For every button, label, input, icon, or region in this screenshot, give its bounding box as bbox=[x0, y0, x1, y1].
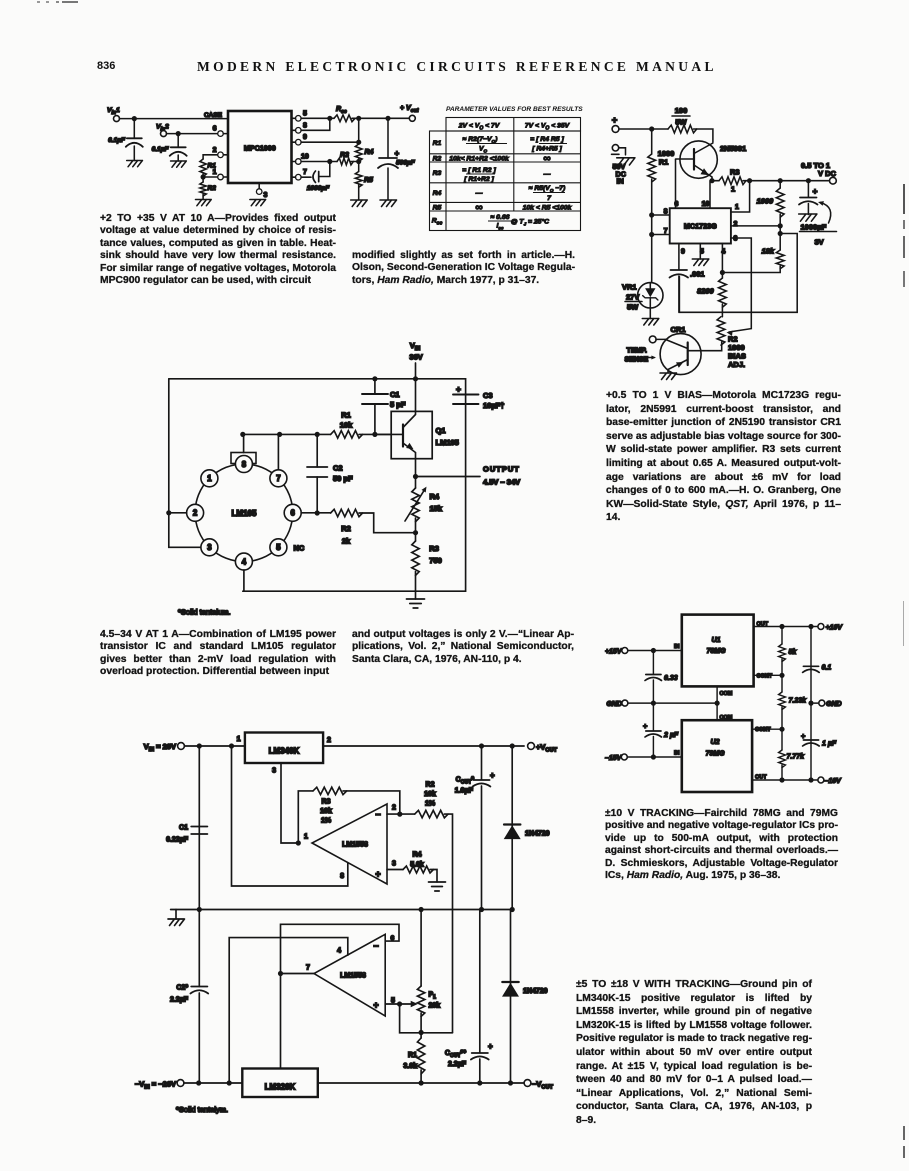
svg-text:R4: R4 bbox=[413, 852, 422, 859]
svg-text:2: 2 bbox=[213, 147, 217, 154]
svg-text:VR1: VR1 bbox=[622, 283, 637, 292]
svg-text:7.23k: 7.23k bbox=[789, 698, 808, 705]
svg-text:VIN = 20V: VIN = 20V bbox=[144, 742, 176, 753]
svg-text:0.1μF: 0.1μF bbox=[108, 137, 126, 144]
svg-text:2: 2 bbox=[734, 221, 738, 228]
svg-text:U2: U2 bbox=[711, 739, 720, 746]
svg-text:1.0μF: 1.0μF bbox=[455, 788, 474, 795]
svg-text:COM: COM bbox=[720, 715, 733, 721]
svg-text:CR1: CR1 bbox=[670, 325, 685, 334]
svg-text:+: + bbox=[490, 771, 495, 780]
svg-text:+15V: +15V bbox=[605, 649, 623, 656]
svg-text:TEMP.: TEMP. bbox=[627, 348, 648, 355]
svg-text:R1: R1 bbox=[408, 1052, 417, 1059]
svg-text:CASE: CASE bbox=[204, 112, 223, 119]
svg-text:0.1μF: 0.1μF bbox=[152, 146, 170, 153]
svg-text:1: 1 bbox=[731, 185, 735, 194]
svg-text:20k: 20k bbox=[429, 1003, 441, 1010]
svg-text:R2: R2 bbox=[433, 156, 442, 163]
svg-text:C2: C2 bbox=[333, 464, 343, 473]
svg-text:8: 8 bbox=[242, 460, 247, 469]
svg-text:50 pF: 50 pF bbox=[333, 474, 353, 483]
svg-text:−: − bbox=[375, 810, 380, 820]
svg-text:R3: R3 bbox=[433, 170, 442, 177]
svg-text:5: 5 bbox=[303, 110, 307, 117]
svg-text:LM1558: LM1558 bbox=[342, 842, 368, 849]
svg-text:1%: 1% bbox=[425, 801, 436, 808]
svg-text:27V: 27V bbox=[626, 293, 639, 302]
svg-text:5 pF: 5 pF bbox=[390, 400, 406, 409]
svg-text:VO: VO bbox=[479, 146, 488, 154]
svg-text:LM105: LM105 bbox=[232, 509, 257, 518]
svg-text:+: + bbox=[395, 149, 400, 158]
svg-text:IN: IN bbox=[617, 177, 624, 186]
svg-text:NC: NC bbox=[294, 544, 305, 553]
svg-text:R3: R3 bbox=[730, 168, 740, 177]
svg-text:0.22µF: 0.22µF bbox=[166, 837, 189, 844]
svg-text:3: 3 bbox=[392, 861, 396, 868]
svg-text:5W: 5W bbox=[675, 118, 687, 127]
svg-text:≈ R5(VO −7): ≈ R5(VO −7) bbox=[529, 185, 566, 193]
svg-text:10: 10 bbox=[301, 154, 309, 161]
svg-text:Rsc: Rsc bbox=[432, 218, 443, 227]
svg-text:—: — bbox=[543, 171, 551, 178]
svg-text:+: + bbox=[813, 186, 818, 196]
svg-text:6: 6 bbox=[291, 509, 296, 518]
svg-text:36V: 36V bbox=[409, 353, 422, 362]
svg-text:R1: R1 bbox=[433, 140, 442, 147]
svg-text:8: 8 bbox=[340, 873, 344, 880]
svg-text:7: 7 bbox=[303, 169, 307, 176]
svg-text:≈ R2(7−VO): ≈ R2(7−VO) bbox=[463, 136, 498, 144]
svg-text:8200: 8200 bbox=[697, 287, 715, 296]
svg-text:Isc: Isc bbox=[496, 223, 503, 231]
svg-text:Rsc: Rsc bbox=[336, 106, 347, 115]
svg-text:−: − bbox=[373, 941, 378, 951]
svg-text:9: 9 bbox=[681, 249, 685, 256]
svg-text:1: 1 bbox=[735, 204, 739, 211]
svg-text:2k: 2k bbox=[342, 537, 351, 546]
svg-text:MC1723G: MC1723G bbox=[684, 222, 717, 231]
svg-text:+: + bbox=[612, 115, 618, 126]
svg-text:6: 6 bbox=[391, 935, 395, 942]
svg-text:R4: R4 bbox=[365, 149, 374, 156]
svg-text:4: 4 bbox=[337, 948, 341, 955]
svg-text:R2: R2 bbox=[426, 782, 435, 789]
svg-text:2.2µF: 2.2µF bbox=[448, 1061, 467, 1068]
svg-text:+: + bbox=[375, 869, 380, 879]
svg-text:1000μF: 1000μF bbox=[801, 223, 827, 232]
svg-text:∞: ∞ bbox=[475, 202, 483, 214]
svg-text:= [ R4 R5 ]: = [ R4 R5 ] bbox=[530, 136, 564, 143]
svg-text:7V < VO < 35V: 7V < VO < 35V bbox=[525, 123, 571, 132]
svg-text:2: 2 bbox=[327, 737, 331, 744]
svg-text:2V < VO < 7V: 2V < VO < 7V bbox=[458, 123, 501, 132]
svg-text:COM: COM bbox=[720, 691, 733, 697]
svg-text:10k< R1+R2 <100k: 10k< R1+R2 <100k bbox=[449, 156, 510, 163]
svg-text:18k: 18k bbox=[762, 247, 775, 256]
svg-text:7: 7 bbox=[547, 195, 552, 202]
svg-text:Q1: Q1 bbox=[436, 426, 446, 435]
svg-text:5k: 5k bbox=[789, 649, 798, 656]
svg-text:≈ 0.66: ≈ 0.66 bbox=[491, 214, 510, 221]
svg-text:10k < R5 <100k: 10k < R5 <100k bbox=[523, 205, 573, 212]
svg-text:U1: U1 bbox=[712, 637, 721, 644]
svg-text:—: — bbox=[475, 190, 483, 197]
svg-text:*Solid tantalum.: *Solid tantalum. bbox=[178, 608, 231, 617]
svg-text:3V: 3V bbox=[815, 238, 824, 247]
svg-text:1%: 1% bbox=[321, 818, 332, 825]
svg-text:V DC: V DC bbox=[818, 169, 837, 178]
svg-text:IN: IN bbox=[674, 644, 680, 650]
svg-text:P1: P1 bbox=[429, 992, 437, 1001]
svg-text:2.2µF: 2.2µF bbox=[170, 997, 189, 1004]
svg-text:R1: R1 bbox=[659, 158, 669, 167]
svg-text:CONT: CONT bbox=[757, 673, 773, 679]
svg-text:2N5991: 2N5991 bbox=[720, 144, 746, 153]
svg-text:9: 9 bbox=[303, 134, 307, 141]
svg-text:7: 7 bbox=[306, 965, 310, 972]
svg-text:IN: IN bbox=[674, 751, 680, 757]
svg-text:R4: R4 bbox=[430, 492, 440, 501]
svg-text:2: 2 bbox=[193, 509, 198, 518]
svg-text:2: 2 bbox=[392, 805, 396, 812]
svg-text:R3: R3 bbox=[429, 544, 439, 553]
svg-text:+ Vout: + Vout bbox=[400, 105, 419, 114]
svg-text:LM1558: LM1558 bbox=[340, 973, 366, 980]
svg-text:GND: GND bbox=[826, 701, 842, 708]
svg-text:5.0k: 5.0k bbox=[410, 862, 424, 869]
svg-text:3.0k: 3.0k bbox=[403, 1063, 417, 1070]
svg-text:CONT: CONT bbox=[755, 727, 771, 733]
svg-text:6: 6 bbox=[675, 201, 679, 208]
svg-text:∞: ∞ bbox=[543, 153, 551, 165]
svg-text:0.33: 0.33 bbox=[664, 675, 678, 682]
svg-text:[ R1+R2 ]: [ R1+R2 ] bbox=[463, 176, 494, 183]
svg-text:10k: 10k bbox=[424, 791, 436, 798]
svg-text:R3: R3 bbox=[322, 799, 331, 806]
svg-text:C2*: C2* bbox=[176, 985, 188, 992]
svg-text:ADJ.: ADJ. bbox=[728, 360, 745, 369]
svg-text:1: 1 bbox=[207, 474, 212, 483]
svg-text:1000pF: 1000pF bbox=[307, 185, 330, 192]
svg-text:R5: R5 bbox=[433, 205, 442, 212]
svg-text:750: 750 bbox=[429, 556, 442, 565]
svg-text:−VOUT: −VOUT bbox=[532, 1080, 554, 1091]
svg-text:+VOUT: +VOUT bbox=[536, 743, 558, 754]
svg-text:+: + bbox=[373, 1000, 378, 1010]
svg-text:1N4720: 1N4720 bbox=[525, 831, 550, 838]
svg-text:6: 6 bbox=[213, 126, 217, 133]
svg-text:78MG: 78MG bbox=[706, 648, 726, 655]
svg-text:7: 7 bbox=[276, 474, 280, 483]
svg-text:79MG: 79MG bbox=[705, 751, 725, 758]
svg-text:= [ R1 R2 ]: = [ R1 R2 ] bbox=[462, 167, 496, 174]
svg-text:2 µF: 2 µF bbox=[663, 732, 679, 739]
svg-text:LM340K: LM340K bbox=[269, 747, 300, 756]
svg-text:100: 100 bbox=[675, 106, 688, 115]
svg-text:5: 5 bbox=[276, 543, 281, 552]
svg-text:GND: GND bbox=[606, 701, 622, 708]
svg-text:1: 1 bbox=[237, 736, 241, 743]
svg-text:10µF†: 10µF† bbox=[483, 401, 504, 410]
svg-text:OUTPUT: OUTPUT bbox=[483, 465, 520, 474]
svg-text:+: + bbox=[488, 1042, 493, 1051]
svg-text:+: + bbox=[643, 722, 648, 731]
svg-text:@ TJ = 25°C: @ TJ = 25°C bbox=[511, 218, 549, 227]
svg-text:3: 3 bbox=[272, 768, 276, 775]
svg-text:C1: C1 bbox=[179, 825, 188, 832]
svg-text:3: 3 bbox=[207, 543, 212, 552]
svg-text:500μF: 500μF bbox=[396, 160, 416, 167]
svg-text:VIN: VIN bbox=[410, 341, 421, 352]
svg-text:−VIN = −20V: −VIN = −20V bbox=[135, 1080, 176, 1091]
svg-text:1: 1 bbox=[304, 834, 308, 841]
svg-text:10: 10 bbox=[702, 201, 710, 208]
svg-text:R3: R3 bbox=[340, 152, 349, 159]
svg-text:*Solid tantalym.: *Solid tantalym. bbox=[176, 1105, 228, 1114]
svg-text:+: + bbox=[456, 384, 461, 394]
svg-text:R5: R5 bbox=[364, 177, 373, 184]
svg-text:15k: 15k bbox=[430, 504, 443, 513]
svg-text:C1: C1 bbox=[390, 390, 400, 399]
svg-text:1000: 1000 bbox=[757, 197, 775, 206]
svg-text:+10V: +10V bbox=[826, 625, 844, 632]
svg-text:–10V: –10V bbox=[825, 778, 843, 785]
svg-text:R4: R4 bbox=[433, 190, 442, 197]
svg-text:8: 8 bbox=[303, 122, 307, 129]
svg-text:1 µF: 1 µF bbox=[822, 741, 837, 748]
svg-text:.001: .001 bbox=[690, 270, 705, 279]
svg-text:3: 3 bbox=[734, 236, 738, 243]
svg-text:[ R4+R5 ]: [ R4+R5 ] bbox=[531, 146, 562, 153]
svg-text:COUT**: COUT** bbox=[445, 1050, 466, 1059]
svg-text:0.1: 0.1 bbox=[822, 665, 832, 672]
svg-text:Vin1: Vin1 bbox=[107, 107, 120, 116]
svg-text:5W: 5W bbox=[627, 303, 639, 312]
svg-text:4: 4 bbox=[242, 557, 247, 566]
svg-text:10k: 10k bbox=[320, 808, 332, 815]
svg-text:C3: C3 bbox=[483, 391, 493, 400]
svg-text:R1: R1 bbox=[341, 411, 351, 420]
svg-text:4.5V – 34V: 4.5V – 34V bbox=[483, 478, 520, 487]
svg-text:LM320K: LM320K bbox=[265, 1083, 296, 1092]
svg-text:10k: 10k bbox=[340, 421, 353, 430]
svg-text:1: 1 bbox=[213, 169, 217, 176]
svg-text:R2: R2 bbox=[341, 524, 351, 533]
svg-text:COUT*: COUT* bbox=[456, 777, 475, 786]
svg-text:R2: R2 bbox=[208, 185, 217, 192]
svg-text:1N4720: 1N4720 bbox=[523, 988, 548, 995]
svg-text:MPC1000: MPC1000 bbox=[244, 144, 276, 153]
svg-text:–15V: –15V bbox=[605, 755, 623, 762]
svg-text:3: 3 bbox=[264, 192, 268, 199]
svg-text:LM195: LM195 bbox=[436, 438, 459, 447]
svg-text:7.77k: 7.77k bbox=[787, 754, 806, 761]
